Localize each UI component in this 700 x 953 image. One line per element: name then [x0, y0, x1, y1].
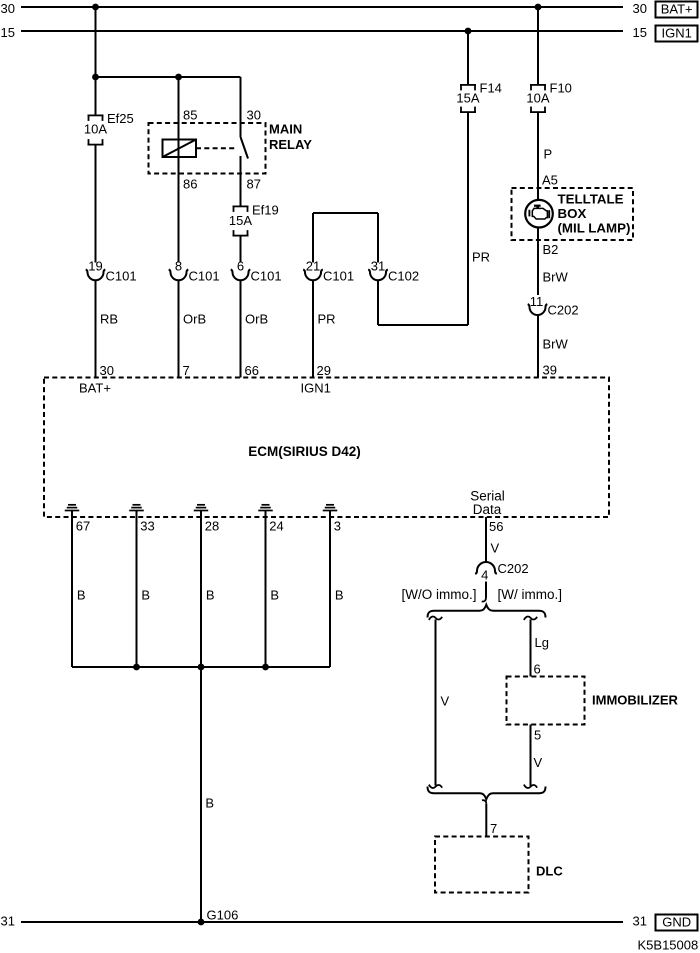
svg-text:15: 15 [633, 25, 647, 40]
svg-text:BrW: BrW [543, 270, 569, 285]
svg-text:F14: F14 [480, 81, 502, 96]
svg-text:66: 66 [245, 363, 259, 378]
svg-text:8: 8 [175, 259, 182, 274]
svg-text:6: 6 [534, 662, 541, 677]
svg-text:31: 31 [1, 914, 15, 929]
svg-text:B: B [141, 588, 150, 603]
svg-text:Data: Data [473, 502, 502, 517]
svg-text:28: 28 [205, 519, 219, 534]
svg-text:Ef19: Ef19 [252, 203, 279, 218]
svg-text:BAT+: BAT+ [661, 2, 693, 17]
svg-text:P: P [544, 147, 553, 162]
svg-text:(MIL LAMP): (MIL LAMP) [558, 221, 631, 236]
svg-text:67: 67 [76, 519, 90, 534]
svg-text:V: V [441, 694, 450, 709]
svg-text:C102: C102 [388, 269, 419, 284]
svg-text:Lg: Lg [535, 635, 549, 650]
svg-text:V: V [491, 541, 500, 556]
svg-text:BrW: BrW [543, 337, 569, 352]
svg-text:Ef25: Ef25 [107, 111, 134, 126]
svg-text:F10: F10 [550, 81, 572, 96]
svg-text:24: 24 [269, 519, 283, 534]
svg-text:86: 86 [183, 177, 197, 192]
svg-text:IMMOBILIZER: IMMOBILIZER [592, 693, 679, 708]
svg-text:G106: G106 [207, 908, 239, 923]
svg-text:C202: C202 [498, 561, 529, 576]
svg-text:30: 30 [1, 1, 15, 16]
svg-text:C101: C101 [189, 269, 220, 284]
svg-text:B: B [335, 588, 344, 603]
svg-text:[W/ immo.]: [W/ immo.] [498, 587, 563, 602]
svg-text:6: 6 [237, 259, 244, 274]
svg-text:30: 30 [100, 363, 114, 378]
svg-text:3: 3 [334, 519, 341, 534]
svg-text:C101: C101 [106, 269, 137, 284]
svg-text:IGN1: IGN1 [662, 26, 692, 41]
svg-text:30: 30 [633, 1, 647, 16]
svg-text:B: B [270, 588, 279, 603]
svg-text:C202: C202 [548, 303, 579, 318]
svg-text:BAT+: BAT+ [79, 381, 111, 396]
svg-text:85: 85 [183, 108, 197, 123]
svg-text:DLC: DLC [536, 864, 563, 879]
svg-text:15A: 15A [456, 91, 479, 106]
svg-text:30: 30 [247, 108, 261, 123]
svg-text:B: B [205, 796, 214, 811]
svg-text:B: B [206, 588, 215, 603]
svg-text:11: 11 [530, 294, 544, 309]
svg-text:OrB: OrB [245, 312, 268, 327]
svg-text:10A: 10A [526, 91, 549, 106]
svg-text:87: 87 [247, 177, 261, 192]
svg-text:BOX: BOX [558, 206, 587, 221]
svg-text:33: 33 [140, 519, 154, 534]
svg-text:19: 19 [88, 259, 102, 274]
svg-text:56: 56 [489, 519, 503, 534]
svg-text:MAIN: MAIN [269, 122, 302, 137]
svg-text:15A: 15A [229, 213, 252, 228]
svg-text:PR: PR [472, 250, 490, 265]
svg-text:31: 31 [371, 259, 385, 274]
svg-text:V: V [534, 755, 543, 770]
svg-text:5: 5 [534, 728, 541, 743]
svg-text:ECM(SIRIUS D42): ECM(SIRIUS D42) [248, 444, 361, 459]
svg-text:29: 29 [317, 363, 331, 378]
svg-text:7: 7 [183, 363, 190, 378]
svg-text:10A: 10A [84, 122, 107, 137]
svg-text:C101: C101 [323, 269, 354, 284]
svg-text:A5: A5 [542, 173, 558, 188]
svg-text:7: 7 [490, 821, 497, 836]
svg-text:21: 21 [306, 259, 320, 274]
svg-text:PR: PR [318, 312, 336, 327]
svg-text:C101: C101 [251, 269, 282, 284]
svg-text:[W/O immo.]: [W/O immo.] [402, 587, 477, 602]
svg-text:39: 39 [543, 363, 557, 378]
svg-text:RELAY: RELAY [269, 137, 312, 152]
svg-text:31: 31 [633, 914, 647, 929]
svg-text:B: B [77, 588, 86, 603]
svg-text:RB: RB [100, 312, 118, 327]
svg-text:B2: B2 [543, 242, 559, 257]
svg-text:GND: GND [662, 915, 691, 930]
svg-text:15: 15 [1, 25, 15, 40]
svg-text:4: 4 [481, 568, 488, 583]
svg-text:OrB: OrB [183, 312, 206, 327]
svg-text:K5B15008: K5B15008 [638, 938, 699, 953]
svg-text:TELLTALE: TELLTALE [558, 192, 624, 207]
svg-text:IGN1: IGN1 [301, 381, 331, 396]
